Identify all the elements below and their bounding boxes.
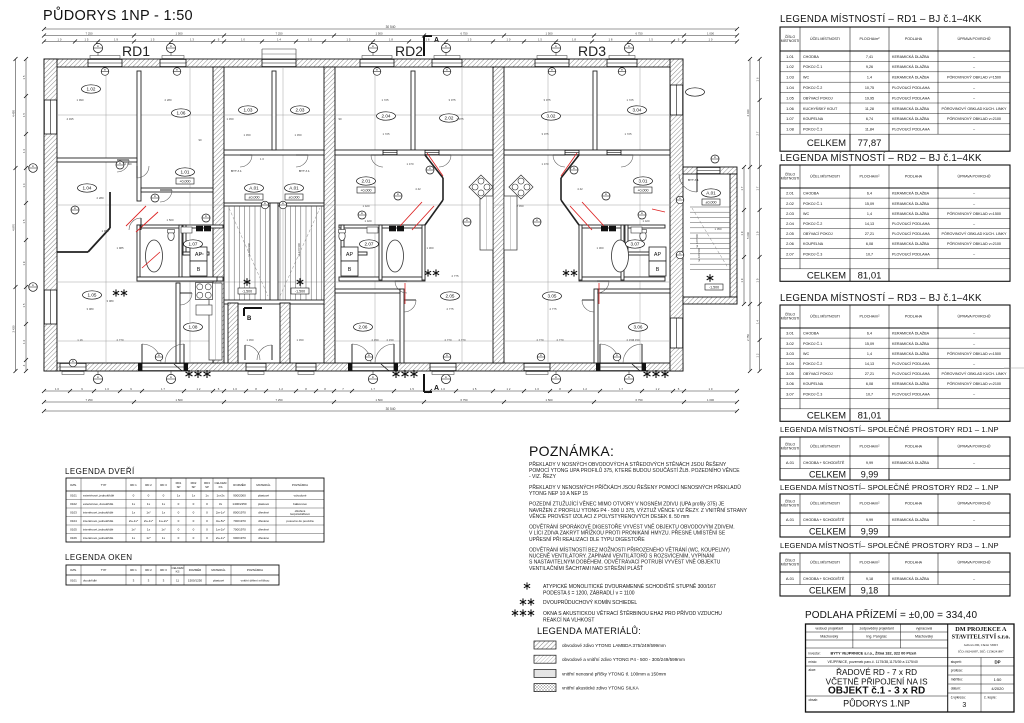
svg-text:2 7: 2 7 [755,131,759,135]
svg-text:1 500: 1 500 [376,398,383,402]
svg-text:RD 2: RD 2 [145,483,152,487]
svg-text:0101: 0101 [70,494,77,498]
svg-text:1 3: 1 3 [22,149,26,153]
svg-text:POZEDNÍ ZTUŽUJÍCÍ VĚNEC MIMO O: POZEDNÍ ZTUŽUJÍCÍ VĚNEC MIMO OTVORY V NO… [529,500,725,508]
svg-text:3x: 3x [219,502,223,506]
central stair block [224,49,324,363]
svg-text:1.07: 1.07 [786,116,795,121]
svg-text:3 075: 3 075 [542,132,549,136]
svg-text:CHODBA + SCHODIŠTĚ: CHODBA + SCHODIŠTĚ [803,460,845,465]
svg-text:POKOJ Č.3: POKOJ Č.3 [803,251,822,256]
svg-text:2.03: 2.03 [296,108,305,113]
svg-text:2.05: 2.05 [786,231,795,236]
svg-text:balkonové: balkonové [293,502,307,506]
svg-text:1 500: 1 500 [176,31,183,35]
svg-text:1 2: 1 2 [656,387,660,391]
svg-text:m: m [551,69,553,72]
svg-text:2 150: 2 150 [633,338,640,342]
svg-text:MÍSTNOSTI: MÍSTNOSTI [781,317,800,321]
svg-text:2 450: 2 450 [517,204,524,208]
svg-text:1.01: 1.01 [181,170,190,175]
svg-text:m: m [72,360,74,363]
svg-text:10,75: 10,75 [865,86,874,90]
svg-text:PÓROVINOVÝ OBKLAD v=1500: PÓROVINOVÝ OBKLAD v=1500 [947,75,1001,80]
svg-text:3.04: 3.04 [633,108,642,113]
svg-text:plastové: plastové [258,502,270,506]
svg-text:m: m [32,165,34,168]
svg-text:2.06: 2.06 [786,241,795,246]
svg-text:B: B [348,267,352,273]
svg-text:1 420: 1 420 [643,219,650,223]
svg-text:2.05: 2.05 [446,294,455,299]
svg-text:dřevěné: dřevěné [258,536,269,540]
svg-text:OZN.: OZN. [70,483,77,487]
svg-text:6,08: 6,08 [866,382,873,386]
svg-text:KERAMICKÁ DLAŽBA: KERAMICKÁ DLAŽBA [892,64,930,69]
svg-text:2 770: 2 770 [117,338,124,342]
svg-text:Ing. Pangrác: Ing. Pangrác [866,635,887,639]
svg-text:PŘEKLADY V NOSNÝCH OBVODOVÝCH: PŘEKLADY V NOSNÝCH OBVODOVÝCH A STŘEDOVÝ… [529,460,727,468]
svg-text:1 8: 1 8 [609,37,613,41]
svg-text:m: m [154,195,156,198]
svg-text:6 750: 6 750 [636,31,643,35]
svg-text:3.02: 3.02 [547,114,556,119]
svg-text:1 0: 1 0 [441,387,445,391]
left axis bubbles [29,164,38,292]
svg-text:KUCHYŇSKÝ KOUT: KUCHYŇSKÝ KOUT [803,106,838,111]
svg-text:1 2: 1 2 [507,387,511,391]
svg-text:3 080: 3 080 [107,299,114,303]
svg-text:2.04: 2.04 [786,221,795,226]
svg-text:2 150: 2 150 [387,338,394,342]
svg-text:dvoukřídlé: dvoukřídlé [83,578,97,582]
svg-text:7,41: 7,41 [866,55,873,59]
svg-text:1 5: 1 5 [347,37,351,41]
svg-text:3 075: 3 075 [544,98,551,102]
svg-text:ŘADOVÉ RD - 7 x RD: ŘADOVÉ RD - 7 x RD [836,667,917,677]
svg-text:interiérové, jednokřídlé: interiérové, jednokřídlé [83,511,114,515]
svg-text:2 770: 2 770 [459,338,466,342]
svg-text:CHODBA: CHODBA [803,192,819,196]
svg-text:na 167/300: na 167/300 [697,248,701,262]
svg-text:1 2: 1 2 [279,387,283,391]
svg-text:1x: 1x [132,536,136,540]
svg-text:1 985: 1 985 [117,246,124,250]
svg-text:1 4: 1 4 [22,183,26,187]
svg-text:m: m [679,252,681,255]
svg-text:m: m [446,354,448,357]
svg-text:1 4: 1 4 [755,320,759,324]
svg-text:PLOVOUCÍ PODLAHA: PLOVOUCÍ PODLAHA [892,372,930,376]
svg-text:DM PROJEKCE A: DM PROJEKCE A [955,626,1007,633]
svg-text:PLOCHA/m²: PLOCHA/m² [860,37,881,41]
svg-text:interiérové, jednokřídlé: interiérové, jednokřídlé [83,528,114,532]
svg-text:na 167/300: na 167/300 [247,243,251,257]
svg-text:1.05: 1.05 [88,293,97,298]
svg-text:10,7: 10,7 [866,252,873,256]
svg-text:-1,500: -1,500 [295,290,305,294]
window sills [62,56,635,375]
svg-text:ÚČEL MÍSTNOSTI: ÚČEL MÍSTNOSTI [810,444,840,449]
svg-text:LEGENDA MÍSTNOSTÍ – RD2 –: LEGENDA MÍSTNOSTÍ – RD2 – BJ č.1–4KK [780,153,982,164]
svg-text:1x: 1x [132,502,136,506]
svg-text:PŮDORYS 1.NP: PŮDORYS 1.NP [843,698,910,709]
extra interior annotation texts [67,117,722,342]
svg-text:3.05: 3.05 [786,371,795,376]
svg-text:1.04: 1.04 [83,186,92,191]
svg-text:2 775: 2 775 [550,307,557,311]
svg-text:3 080: 3 080 [87,307,94,311]
svg-text:KERAMICKÁ DLAŽBA: KERAMICKÁ DLAŽBA [892,54,930,59]
svg-text:3.01: 3.01 [786,331,795,336]
table spolecne prostory RD3 [780,541,1010,596]
svg-text:RD 1: RD 1 [130,568,137,572]
svg-text:plastové: plastové [258,494,270,498]
svg-text:1 000: 1 000 [707,31,714,35]
svg-text:+0,000: +0,000 [637,189,648,193]
svg-text:SP: SP [205,485,209,489]
svg-text:1.06: 1.06 [786,106,795,111]
svg-text:MATERIÁL: MATERIÁL [256,483,271,487]
section mark A [424,36,439,392]
svg-text:m: m [282,202,284,205]
svg-text:9,18: 9,18 [861,585,879,595]
svg-text:vypracoval: vypracoval [916,627,932,631]
svg-text:obvodové zdivo YTONG LAMBDA 37: obvodové zdivo YTONG LAMBDA 375/249/599m… [562,643,666,648]
svg-text:POMOCÍ YTONG UPA PROFILŮ 375,: POMOCÍ YTONG UPA PROFILŮ 375, KTERÉ BUDO… [529,466,740,474]
svg-text:±0,000: ±0,000 [706,201,717,205]
svg-text:DVOUPRŮDUCHOVÝ KOMÍN SCHIEDEL: DVOUPRŮDUCHOVÝ KOMÍN SCHIEDEL [543,599,637,606]
svg-text:1 9: 1 9 [114,37,118,41]
svg-text:m: m [714,156,716,159]
svg-text:m: m [397,193,399,196]
svg-text:2 280: 2 280 [165,98,172,102]
svg-text:1 5: 1 5 [22,219,26,223]
svg-text:OBÝVACÍ POKOJ: OBÝVACÍ POKOJ [803,96,833,100]
svg-text:6 750: 6 750 [636,398,643,402]
svg-text:3.06: 3.06 [786,381,795,386]
svg-text:1 5: 1 5 [22,303,26,307]
svg-text:1 7: 1 7 [619,387,623,391]
svg-text:1x: 1x [132,511,136,515]
svg-text:PLOCHA/m²: PLOCHA/m² [860,561,881,565]
svg-text:6 750: 6 750 [461,31,468,35]
svg-text:4 870: 4 870 [11,224,15,231]
svg-text:NUCENĚ VENTILÁTORY. ZAPÍNÁNÍ V: NUCENĚ VENTILÁTORY. ZAPÍNÁNÍ VENTILÁTORŮ… [529,552,715,560]
svg-text:PODLAHA: PODLAHA [905,175,923,179]
svg-text:MÍSTNOSTI: MÍSTNOSTI [781,39,800,43]
svg-text:LEGENDA MÍSTNOSTÍ– SPOLEČNÉ: LEGENDA MÍSTNOSTÍ– SPOLEČNÉ PROSTORY RD2… [780,483,999,492]
svg-text:2 775: 2 775 [447,307,454,311]
svg-text:1 725: 1 725 [625,132,632,136]
svg-text:30 540: 30 540 [386,25,396,29]
title block [806,624,1015,712]
svg-text:4x+5x*: 4x+5x* [216,519,226,523]
svg-text:místo:: místo: [809,660,818,664]
svg-text:m: m [372,376,374,379]
svg-text:1 300: 1 300 [427,246,434,250]
svg-text:OZN.: OZN. [70,568,77,572]
svg-text:KERAMICKÁ DLAŽBA: KERAMICKÁ DLAŽBA [892,331,930,336]
svg-text:- VIZ. ŘEZY: - VIZ. ŘEZY [529,472,557,480]
svg-text:1.02: 1.02 [87,87,96,92]
svg-text:4 430: 4 430 [746,109,750,116]
svg-text:1 7: 1 7 [161,387,165,391]
svg-text:PLOCHA/m²: PLOCHA/m² [860,315,881,319]
svg-text:DP: DP [994,660,1000,665]
triple star marks [186,370,211,378]
svg-text:m: m [376,69,378,72]
svg-text:1 7: 1 7 [740,186,744,190]
svg-text:1 2: 1 2 [197,387,201,391]
svg-text:MÍSTNOSTI: MÍSTNOSTI [781,177,800,181]
svg-text:CELKEM: CELKEM [809,585,846,595]
svg-text:1x: 1x [147,502,151,506]
svg-text:ÚPRAVA POVRCHŮ: ÚPRAVA POVRCHŮ [957,174,990,179]
svg-text:AP: AP [346,252,354,258]
svg-text:KS: KS [219,485,223,489]
svg-text:PLOCHA/m²: PLOCHA/m² [860,502,881,506]
svg-text:CHODBA: CHODBA [803,332,819,336]
svg-text:1.07: 1.07 [189,242,198,247]
svg-text:1 470: 1 470 [407,162,414,166]
dimension lines top [42,25,739,31]
svg-text:1 500: 1 500 [176,398,183,402]
section mark B [244,308,262,322]
svg-text:PLOVOUCÍ PODLAHA: PLOVOUCÍ PODLAHA [892,86,930,90]
svg-text:1 450: 1 450 [295,133,302,137]
svg-text:4 495: 4 495 [67,117,74,121]
svg-text:č. kopie:: č. kopie: [984,696,997,700]
svg-text:30 540: 30 540 [386,407,396,411]
svg-text:CHODBA: CHODBA [803,55,819,59]
svg-text:1 0: 1 0 [241,37,245,41]
svg-text:B: B [197,267,201,273]
svg-text:PODLAHA: PODLAHA [905,561,923,565]
svg-text:m: m [555,376,557,379]
svg-text:19,95: 19,95 [865,96,874,100]
svg-text:2 770: 2 770 [445,338,452,342]
svg-text:1x+2x*: 1x+2x* [216,528,226,532]
svg-text:1 450: 1 450 [297,338,304,342]
svg-text:1 0: 1 0 [709,387,713,391]
svg-text:2.07: 2.07 [365,242,374,247]
svg-text:1 9: 1 9 [22,261,26,265]
svg-text:3 075: 3 075 [457,117,464,121]
svg-text:CELKEM: CELKEM [807,138,846,149]
svg-text:A.01: A.01 [706,191,716,196]
svg-text:0103: 0103 [70,511,77,515]
svg-text:1 9: 1 9 [755,231,759,235]
svg-text:3.07: 3.07 [786,391,795,396]
svg-text:1 0: 1 0 [535,387,539,391]
svg-text:profese:: profese: [951,669,963,673]
svg-text:TYP: TYP [101,568,107,572]
svg-text:11,84: 11,84 [865,128,874,132]
svg-text:m: m [74,207,76,210]
svg-text:1 0: 1 0 [105,387,109,391]
svg-text:KOUPELNA: KOUPELNA [803,242,824,246]
svg-text:7 250: 7 250 [276,398,283,402]
svg-text:+0,000: +0,000 [179,180,190,184]
empty room ellipse [686,88,705,96]
svg-text:1 300: 1 300 [597,246,604,250]
svg-text:bezpolodrážkové: bezpolodrážkové [290,512,310,516]
svg-text:PLOVOUCÍ PODLAHA: PLOVOUCÍ PODLAHA [892,252,930,256]
svg-text:NAVRŽEN Z PROFILU YTONG P4 - 5: NAVRŽEN Z PROFILU YTONG P4 - 500 U 375, … [529,506,748,514]
svg-text:OBÝVACÍ POKOJ: OBÝVACÍ POKOJ [803,372,833,376]
svg-text:1 2: 1 2 [583,387,587,391]
svg-text:POKOJ Č.2: POKOJ Č.2 [803,361,822,366]
svg-text:6,74: 6,74 [866,117,873,121]
svg-text:MÍSTNOSTI: MÍSTNOSTI [781,563,800,567]
svg-text:1,4: 1,4 [867,212,872,216]
svg-text:dřevěné: dřevěné [258,511,269,515]
svg-text:2.04: 2.04 [382,114,391,119]
svg-text:ÚČEL MÍSTNOSTI: ÚČEL MÍSTNOSTI [810,36,840,41]
extra bubbles on walls [69,68,684,367]
svg-text:11: 11 [176,578,179,582]
svg-text:m: m [205,215,207,218]
svg-text:LEGENDA OKEN: LEGENDA OKEN [65,553,133,562]
svg-text:LEGENDA MÍSTNOSTÍ– SPOLEČNÉ: LEGENDA MÍSTNOSTÍ– SPOLEČNÉ PROSTORY RD1… [780,425,999,434]
svg-text:STAVITELSTVÍ s.r.o.: STAVITELSTVÍ s.r.o. [952,633,1011,641]
svg-text:WC: WC [803,212,809,216]
svg-text:1 5: 1 5 [85,37,89,41]
svg-text:2 150: 2 150 [627,338,634,342]
svg-text:dřevěné: dřevěné [258,528,269,532]
svg-text:2 150: 2 150 [372,338,379,342]
svg-text:1x: 1x [177,494,181,498]
svg-text:+0,000: +0,000 [360,189,371,193]
svg-text:vnitřní nenosné příčky YTONG t: vnitřní nenosné příčky YTONG tl. 100mm a… [562,671,666,676]
svg-text:1 0: 1 0 [308,37,312,41]
svg-text:PODLAHA: PODLAHA [905,315,923,319]
svg-text:LEGENDA MATERIÁLŮ:: LEGENDA MATERIÁLŮ: [537,625,641,636]
svg-text:1400/2250: 1400/2250 [232,502,247,506]
svg-text:MÍSTNOSTI: MÍSTNOSTI [781,447,800,451]
interior dimension chains [57,67,670,363]
svg-text:PLOCHA/m²: PLOCHA/m² [860,175,881,179]
svg-text:27,21: 27,21 [865,232,874,236]
svg-text:9,99: 9,99 [866,518,873,522]
svg-text:15,09: 15,09 [865,202,874,206]
svg-text:1 450: 1 450 [227,117,234,121]
svg-text:exteriérové, dvoukřídlé: exteriérové, dvoukřídlé [83,502,114,506]
svg-text:KERAMICKÁ DLAŽBA: KERAMICKÁ DLAŽBA [892,191,930,196]
svg-text:exteriérové, jednokřídlé: exteriérové, jednokřídlé [83,494,115,498]
svg-text:1.06: 1.06 [177,111,186,116]
svg-text:WC: WC [803,76,809,80]
svg-text:ÚČEL MÍSTNOSTI: ÚČEL MÍSTNOSTI [810,174,840,179]
svg-text:3.05: 3.05 [548,294,557,299]
svg-text:vedoucí projektant: vedoucí projektant [815,627,843,631]
svg-text:PLOVOUCÍ PODLAHA: PLOVOUCÍ PODLAHA [892,362,930,366]
svg-text:A.01: A.01 [289,186,299,191]
svg-text:6,4: 6,4 [867,332,872,336]
svg-text:OBJEKT č.1 - 3 x RD: OBJEKT č.1 - 3 x RD [828,686,925,697]
svg-text:2x+1x*: 2x+1x* [216,536,226,540]
svg-text:KERAMICKÁ DLAŽBA: KERAMICKÁ DLAŽBA [892,381,930,386]
svg-text:PÓROVINOVÝ OBKLAD KUCH. LINKY: PÓROVINOVÝ OBKLAD KUCH. LINKY [942,371,1007,376]
svg-text:1,4: 1,4 [867,76,872,80]
svg-text:ODVĚTRÁNÍ SPORÁKOVÉ DIGESTOŘE: ODVĚTRÁNÍ SPORÁKOVÉ DIGESTOŘE VYVÉST VNĚ… [529,523,735,531]
svg-text:2 750: 2 750 [746,334,750,341]
svg-text:B: B [656,267,660,273]
svg-text:UPŘESNÍ PŘI REALIZACI DLE TYPU: UPŘESNÍ PŘI REALIZACI DLE TYPU DIGESTOŘE [529,535,645,543]
svg-text:m: m [446,69,448,72]
svg-text:WC: WC [803,352,809,356]
svg-text:2.01: 2.01 [786,191,795,196]
svg-text:RD 2: RD 2 [145,568,152,572]
table legenda mistnosti RD3 [780,293,1010,421]
fold mark [1004,367,1024,369]
svg-text:KERAMICKÁ DLAŽBA: KERAMICKÁ DLAŽBA [892,517,930,522]
svg-text:BYT č.1: BYT č.1 [688,178,699,182]
svg-text:na 167/300: na 167/300 [297,243,301,257]
svg-text:ÚČEL MÍSTNOSTI: ÚČEL MÍSTNOSTI [810,314,840,319]
svg-text:m: m [158,354,160,357]
svg-text:1 990: 1 990 [77,98,84,102]
svg-text:3 430: 3 430 [11,325,15,332]
svg-text:1 9: 1 9 [740,278,744,282]
svg-text:ÚČEL MÍSTNOSTI: ÚČEL MÍSTNOSTI [810,560,840,565]
svg-text:KS: KS [176,570,180,574]
svg-text:1x+2x: 1x+2x [216,494,225,498]
svg-text:14,13: 14,13 [865,222,874,226]
table legenda mistnosti RD2 [780,153,1010,281]
svg-text:1:50: 1:50 [994,677,1003,682]
table legenda mistnosti RD1 [780,14,1010,151]
svg-text:m: m [555,45,557,48]
svg-text:6,4: 6,4 [867,192,872,196]
svg-text:2x+1x*: 2x+1x* [129,519,139,523]
svg-text:1.02: 1.02 [786,64,795,69]
svg-text:7 250: 7 250 [86,31,93,35]
svg-text:0106: 0106 [70,536,77,540]
svg-text:PÓROVINOVÝ OBKLAD v=2100: PÓROVINOVÝ OBKLAD v=2100 [947,381,1001,386]
svg-text:1.01: 1.01 [786,54,795,59]
svg-text:1x: 1x [162,502,166,506]
svg-text:1x: 1x [162,536,166,540]
french doors bottom [142,344,184,363]
svg-text:m: m [621,69,623,72]
annex entry door [697,167,720,174]
svg-text:5 640: 5 640 [746,232,750,239]
svg-text:stupeň:: stupeň: [951,660,962,664]
svg-text:1 500: 1 500 [546,31,553,35]
svg-text:ÚPRAVA POVRCHŮ: ÚPRAVA POVRCHŮ [957,314,990,319]
svg-text:REAKCÍ NA VLHKOST: REAKCÍ NA VLHKOST [543,616,594,623]
svg-text:1 5: 1 5 [22,113,26,117]
svg-text:VEJPRNICE, pozemek parc.č. 117: VEJPRNICE, pozemek parc.č. 1175/38,1175/… [828,660,918,664]
svg-text:VENTILAČNÍMI ŠACHTAMI NAD STŘE: VENTILAČNÍMI ŠACHTAMI NAD STŘEŠNÍ PLÁŠŤ [529,564,643,572]
svg-text:1 420: 1 420 [365,219,372,223]
svg-text:POKOJ Č.2: POKOJ Č.2 [803,85,822,90]
svg-text:1x+2x*: 1x+2x* [159,519,169,523]
svg-text:PLOVOUCÍ PODLAHA: PLOVOUCÍ PODLAHA [892,232,930,236]
svg-text:9,99: 9,99 [866,461,873,465]
dimension lines bottom [42,387,739,393]
svg-text:MATERIÁL: MATERIÁL [211,568,226,572]
annex stair entry RD3 [652,155,730,290]
svg-text:1 8: 1 8 [389,37,393,41]
table spolecne prostory RD1 [780,425,1010,480]
svg-text:1.08: 1.08 [786,127,795,132]
svg-text:1 5: 1 5 [468,37,472,41]
svg-text:-1,500: -1,500 [709,286,719,290]
svg-text:1 16: 1 16 [77,338,83,342]
